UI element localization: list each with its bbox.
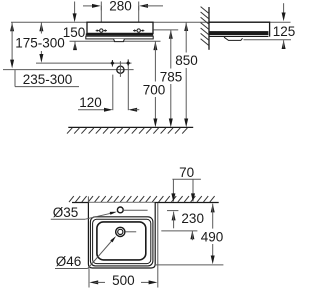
svg-text:230: 230 — [181, 211, 204, 226]
dim 125 up arrow — [282, 40, 286, 49]
basin front shadow band — [86, 33, 153, 35]
extension spur above wall at basin left edge — [87, 196, 89, 202]
svg-text:235-300: 235-300 — [23, 72, 73, 87]
extension line y=29.9 mounting hole level to 785 — [154, 29, 179, 31]
svg-text:150: 150 — [63, 25, 86, 40]
extension line basin front edge for 490 — [155, 264, 224, 266]
extension line y=63 stud level — [36, 62, 132, 64]
floor hatching — [67, 128, 72, 134]
stud marker left diamond — [111, 60, 113, 67]
extension line from left mounting hole up to 280 dim — [100, 6, 102, 33]
label flag 235-300 vertical — [14, 70, 16, 87]
extension line y=69.5 faucet supply level — [3, 69, 134, 71]
basin front view body — [87, 22, 153, 33]
dim 70 right down arrow — [192, 179, 194, 196]
basin side shadow band — [209, 31, 268, 35]
dim 120 left line and right-pointing arrow — [78, 109, 107, 111]
basin footprint outline plan — [88, 203, 155, 269]
basin side view body outline — [209, 22, 270, 36]
dim 280 line right segment with left-pointing arrow — [139, 4, 148, 8]
drain extension line segments — [125, 231, 136, 233]
drain tab below rim — [114, 39, 125, 42]
dim 500 left extension line — [88, 268, 90, 287]
dim 70 left down arrow — [172, 179, 174, 196]
svg-text:Ø35: Ø35 — [53, 205, 79, 220]
faucet circle vertical crosshair — [119, 61, 121, 77]
dim 150 down arrow at top — [74, 2, 76, 17]
svg-text:500: 500 — [112, 273, 135, 288]
drain housing bump side view — [224, 37, 243, 40]
dim 120 right arrow and line — [128, 108, 137, 112]
wall line side view — [208, 7, 210, 50]
dim 70 horizontal line — [172, 178, 201, 180]
left mounting hole marker — [96, 30, 97, 32]
wall line plan view — [72, 202, 219, 204]
right mounting hole marker — [133, 30, 134, 32]
dim 500 right extension line — [157, 203, 159, 288]
svg-text:785: 785 — [160, 69, 183, 84]
svg-text:490: 490 — [201, 229, 224, 244]
wall hatching plan view — [69, 196, 74, 202]
drain inner circle plan — [118, 229, 123, 234]
dim 150 up arrow at bottom — [73, 41, 77, 50]
dim 700 vertical — [153, 41, 157, 50]
dim 230 upper up arrow — [172, 212, 176, 221]
extension line y=41.3 (rim bottom level, 700 reference) — [70, 40, 161, 42]
extension line below right stud — [127, 66, 129, 110]
svg-text:700: 700 — [143, 83, 166, 98]
stud marker right diamond — [127, 59, 129, 66]
extension line below left stud — [112, 75, 114, 111]
svg-text:125: 125 — [273, 24, 296, 39]
dim 125 down arrow — [283, 3, 285, 15]
label Ø35 leader underline and diagonal — [51, 218, 85, 220]
bowl rounded rect — [97, 222, 146, 260]
svg-text:120: 120 — [79, 95, 102, 110]
svg-text:Ø46: Ø46 — [56, 254, 82, 269]
svg-text:175-300: 175-300 — [15, 35, 65, 50]
faucet supply circle front view — [117, 66, 124, 73]
dim 280 line left segment with right-pointing arrow — [83, 5, 95, 7]
dim 490 lower segment with down arrow — [212, 244, 214, 259]
dim 500 line with outward arrows — [89, 280, 98, 284]
drain outer circle plan — [116, 227, 125, 236]
svg-text:850: 850 — [175, 53, 198, 68]
label Ø46 leader underline and diagonal — [55, 268, 88, 270]
basin rim outer rounded rect — [90, 217, 152, 266]
dim 280 right extension tick — [138, 2, 140, 11]
svg-text:70: 70 — [179, 165, 194, 180]
dim 490 up arrow below wall — [211, 204, 215, 213]
extension line from right mounting hole up to 280 dim — [138, 6, 140, 33]
dim 785 vertical — [169, 30, 173, 39]
long extension line at basin top level y=22 — [11, 21, 291, 23]
basin side rim bottom line — [209, 36, 268, 38]
label flag 235-300 underline — [15, 86, 79, 88]
dim 280 left extension tick — [100, 2, 102, 11]
dim 235-300 vertical line upper part with up arrow — [10, 22, 14, 31]
dim 230 lower up arrow — [190, 231, 194, 240]
dim 235-300 lower part with down arrow — [10, 60, 14, 69]
dim 850 vertical — [184, 22, 188, 31]
wall hatching side view — [201, 7, 209, 14]
tap hole extension line segments — [124, 209, 148, 211]
dim 175-300 vertical line upper part with up arrow — [39, 22, 43, 31]
basin front rim — [86, 36, 153, 39]
tap hole circle plan — [117, 207, 123, 213]
svg-text:280: 280 — [109, 0, 132, 14]
dim 175-300 lower part with down arrow — [40, 51, 42, 57]
floor line front view — [68, 126, 193, 128]
extension line lower 125 level — [244, 39, 292, 41]
basin rim inner rounded rect — [93, 219, 151, 263]
